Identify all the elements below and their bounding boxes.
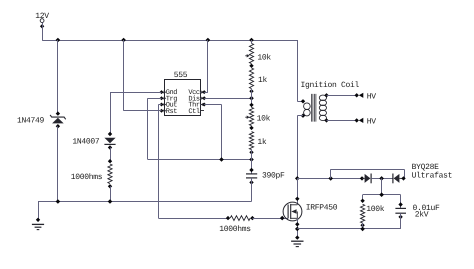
node source junction [295,227,300,232]
wire Dis pin to divider [204,98,251,100]
svg-text:1k: 1k [258,76,268,85]
svg-text:555: 555 [174,71,188,80]
svg-text:100k: 100k [366,205,385,214]
wire 12V terminal to top rail [42,23,44,41]
svg-text:HV: HV [367,117,377,126]
ground symbol left [32,218,44,230]
diode D3 BYQ28E half A [360,174,371,184]
resistor R4 1k [249,132,253,155]
resistor R7 100k [360,199,364,229]
node R5-ground junction [108,199,113,204]
resistor R2 1k [249,68,253,93]
pin Gnd stub U1 [160,90,167,94]
svg-text:10k: 10k [257,114,271,123]
inductor T1 secondary [319,93,328,123]
potentiometer R1 10k [245,43,254,68]
pin Vcc stub U1 [201,90,207,94]
wire Out pin run [158,105,161,219]
svg-text:10k: 10k [257,53,271,62]
label 2kV [415,210,429,219]
svg-text:1000hms: 1000hms [219,225,251,234]
label R2 1k [258,76,268,85]
wire snubber top link [363,195,401,209]
wire top +12V rail [42,40,297,42]
capacitor C2 0.01uF 2kV [395,202,406,229]
capacitor C1 390pF [246,168,257,185]
resistor R6 100 Ohms horizontal [226,216,255,221]
label 1000hms horizontal resistor [219,225,251,234]
wire Vcc pin to rail [204,40,208,93]
wire diode bypass loop [331,169,405,178]
diode D4 BYQ28E half B [393,174,406,184]
wire snubber mid down [381,178,383,194]
terminal 12V supply [35,12,49,28]
pin Ctl stub U1 [201,110,205,112]
svg-text:1N4749: 1N4749 [17,117,45,126]
wire gate resistor to MOSFET gate [252,218,288,220]
svg-text:HV: HV [367,92,377,101]
label R3 10k [257,114,271,123]
svg-text:390pF: 390pF [262,172,285,181]
svg-text:1N4007: 1N4007 [72,138,100,147]
555 pin labels left Gnd Trg Out Rst [166,88,178,116]
label Ignition Coil [301,81,360,90]
wire C1 to ground rail [38,178,252,202]
label 0.01uF [413,204,441,213]
label BYQ28E [412,163,440,172]
diode D2 1N4007 [104,132,115,150]
terminal HV bottom [355,117,377,126]
transformer T1 core [311,94,316,122]
wire coil primary to drain [297,116,303,179]
wire diode D2 to resistor R5 [110,148,112,162]
pin Trg stub U1 [160,96,167,100]
svg-text:2kV: 2kV [415,210,429,219]
wire rail to R1 [251,40,253,43]
label 1N4007 [72,138,100,147]
wire ground rail drop [38,202,40,222]
node rail-divider junction [249,38,254,43]
resistor R5 100 Ohms vertical [108,159,112,189]
pin Out stub U1 [160,103,167,107]
svg-text:12V: 12V [35,12,49,21]
wire Trg pin run [148,98,162,159]
node 100k-source junction [360,227,365,232]
label Ultrafast [412,171,453,180]
node rail-zener junction [56,38,61,43]
node divider-Trg/Thr junction [249,157,254,162]
wire drain to diode D3 [297,178,362,180]
wire D3 to D4 middle [371,178,393,180]
node rail-Rst junction [121,38,126,43]
label 100k [366,205,385,214]
wire resistor R5 to ground rail [110,186,112,201]
zener diode D1 1N4749 [50,111,66,128]
node Thr-tap junction [219,157,224,162]
svg-text:Ctl: Ctl [188,107,200,116]
op-amp/timer U1 555 body [165,71,201,116]
555 pin labels right Vcc Dis Thr Ctl [188,89,200,116]
wire Gnd pin net down to diode D2 [110,92,112,134]
terminal HV top [355,92,377,101]
pin Thr stub U1 [201,103,207,107]
label 1000hms vertical resistor [71,173,103,182]
label R4 1k [257,138,267,147]
svg-text:Ignition Coil: Ignition Coil [301,81,360,90]
pin Dis stub U1 [201,96,207,100]
node bypass-left junction [328,176,333,181]
label R1 10k [257,53,271,62]
label 390pF [262,172,285,181]
wire R4 to C1 [251,150,253,174]
wire Rst pin to rail [124,40,162,111]
wire source rail [297,228,400,230]
node divider-Dis junction [249,96,254,101]
inductor T1 primary [301,99,310,118]
svg-text:Rst: Rst [166,108,178,116]
ground symbol right [291,235,303,246]
svg-text:1000hms: 1000hms [71,173,103,182]
label 1N4749 [17,117,45,126]
wire Trg/Thr to divider tap [148,159,252,161]
pin Rst stub U1 [160,109,167,113]
node gate junction [280,216,285,221]
wire secondary to HV bottom [327,120,357,122]
svg-text:Ultrafast: Ultrafast [412,171,453,180]
wire rail to zener D1 [57,40,59,114]
node snubber link junction [379,192,384,197]
transistor Q1 IRFP450 [283,202,302,221]
wire secondary to HV top [327,95,357,97]
node rail-Vcc junction [206,38,211,43]
svg-text:IRFP450: IRFP450 [306,203,338,212]
svg-text:1k: 1k [257,138,267,147]
wire Out to gate resistor [158,218,228,220]
wire Thr pin run [204,105,221,160]
wire zener D1 to ground rail [57,126,59,201]
node drain junction [295,176,300,181]
potentiometer R3 10k [245,103,254,130]
wire drain junction to MOSFET [295,178,299,204]
wire Gnd pin to D2 branch [110,92,162,94]
label IRFP450 [306,203,338,212]
wire MOSFET source down [295,218,299,238]
node snubber mid junction [379,176,384,181]
wire rail to coil primary [297,40,303,102]
wire R2 to R3 [251,89,253,108]
node zener-ground junction [56,199,61,204]
